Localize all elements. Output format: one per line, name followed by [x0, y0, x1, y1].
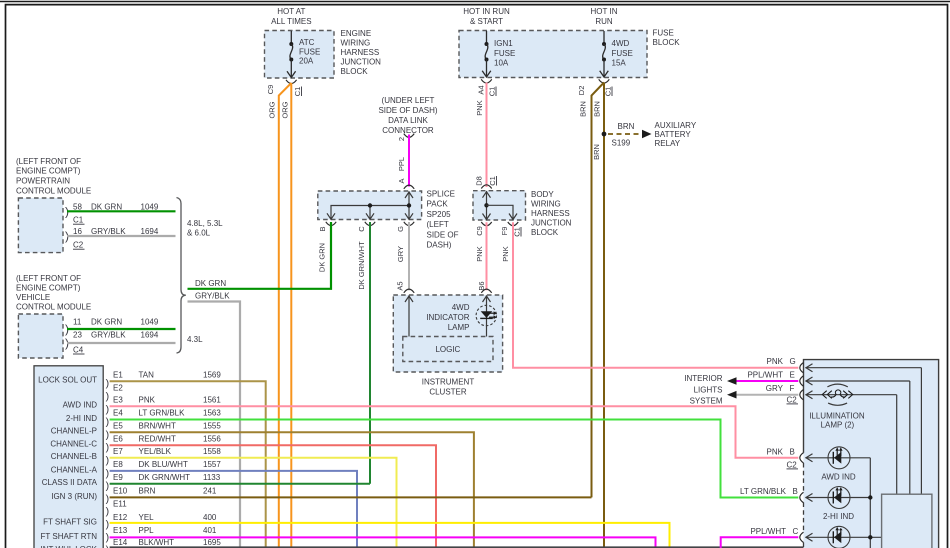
data link connector label — [378, 96, 437, 135]
pin label C1 (underlined) — [603, 87, 612, 97]
pin E7 YEL/BLK 1558 text — [113, 447, 221, 456]
svg-text:1569: 1569 — [203, 371, 221, 380]
svg-text:VEHICLE: VEHICLE — [16, 293, 50, 302]
svg-text:4WD: 4WD — [612, 39, 630, 48]
svg-text:CONTROL MODULE: CONTROL MODULE — [16, 186, 91, 195]
wire PNK 1561 from E3 to AWD IND connector B — [110, 406, 799, 458]
svg-text:16: 16 — [73, 227, 82, 236]
svg-text:ILLUMINATION: ILLUMINATION — [809, 412, 865, 421]
svg-text:LAMP (2): LAMP (2) — [821, 421, 855, 430]
connector arc at splice terminal B — [326, 222, 336, 226]
svg-text:DK GRN: DK GRN — [317, 243, 326, 272]
cluster internal wire B6 through lamp to logic — [483, 296, 491, 337]
wire YEL/BLK 1558 from E7, turns down at x=396.5 — [110, 458, 397, 548]
wire ORG (left branch from ATC fuse) — [279, 83, 292, 548]
svg-text:1557: 1557 — [203, 460, 221, 469]
wire GRY/BLK 1694 from VCM pin 23 — [67, 342, 176, 344]
svg-text:YEL: YEL — [139, 513, 155, 522]
wire LT GRN/BLK 1563 from E4 to 2-HI IND connector B — [110, 420, 799, 498]
svg-text:DATA LINK: DATA LINK — [388, 116, 428, 125]
svg-text:FT SHAFT SIG: FT SHAFT SIG — [43, 517, 97, 526]
svg-text:E12: E12 — [113, 513, 128, 522]
svg-text:CHANNEL-P: CHANNEL-P — [51, 427, 97, 436]
svg-text:PPL/WHT: PPL/WHT — [747, 370, 783, 379]
svg-text:BRN/WHT: BRN/WHT — [139, 422, 176, 431]
wire PPL 401 from E13, turns down at x=655.5 — [110, 537, 656, 548]
svg-text:C1: C1 — [73, 216, 84, 225]
svg-text:2: 2 — [397, 137, 406, 141]
svg-text:401: 401 — [203, 526, 217, 535]
pin label C1 (underlined) — [73, 216, 85, 225]
illumination / indicator module box (right) — [804, 360, 939, 548]
fuse block (IGN1 + 4WD fuses) — [459, 31, 647, 78]
svg-text:20A: 20A — [299, 57, 314, 66]
svg-text:1694: 1694 — [141, 330, 159, 339]
svg-text:PNK: PNK — [475, 100, 484, 115]
fuse ATC FUSE 20A — [287, 31, 320, 78]
wire DK GRN/WHT 1133 from E9 joining splice C drop — [110, 483, 370, 485]
svg-text:1561: 1561 — [203, 396, 221, 405]
svg-text:C1: C1 — [293, 87, 302, 97]
vehicle control module connector box — [18, 314, 63, 358]
svg-text:RED/WHT: RED/WHT — [139, 434, 176, 443]
svg-text:1133: 1133 — [203, 473, 221, 482]
svg-text:BRN: BRN — [592, 144, 601, 160]
wire PPL/WHT C from below crop to connector C — [721, 537, 799, 548]
svg-text:RELAY: RELAY — [655, 139, 681, 148]
svg-text:PPL/WHT: PPL/WHT — [750, 527, 786, 536]
svg-text:(UNDER LEFT: (UNDER LEFT — [382, 96, 435, 105]
svg-text:E7: E7 — [113, 447, 123, 456]
svg-text:4.8L, 5.3L: 4.8L, 5.3L — [187, 219, 223, 228]
svg-text:A5: A5 — [395, 281, 404, 290]
svg-text:GRY: GRY — [766, 384, 784, 393]
pin 16 GRY/BLK 1694 text — [73, 227, 159, 236]
svg-text:DK GRN: DK GRN — [91, 203, 122, 212]
svg-text:E: E — [790, 370, 795, 379]
svg-text:10A: 10A — [494, 58, 509, 67]
svg-text:): ) — [106, 544, 110, 548]
pin E12 YEL 400 text — [113, 513, 217, 522]
svg-text:C: C — [793, 527, 799, 536]
body wiring harness junction block box — [473, 191, 526, 220]
svg-text:E1: E1 — [113, 371, 123, 380]
svg-text:TAN: TAN — [139, 371, 155, 380]
svg-text:ORG: ORG — [280, 101, 289, 118]
label SPLICE PACK SP205 (LEFT SIDE OF DASH) — [427, 190, 459, 250]
vehicle control module label — [16, 274, 91, 312]
svg-text:ATC: ATC — [299, 38, 315, 47]
label FUSE BLOCK — [653, 29, 681, 48]
connector arc C (third lamp) — [800, 532, 804, 542]
svg-text:E14: E14 — [113, 538, 128, 547]
connector arc under 4WD fuse — [599, 79, 610, 83]
svg-text:YEL/BLK: YEL/BLK — [139, 447, 172, 456]
svg-text:CONNECTOR: CONNECTOR — [382, 126, 434, 135]
svg-text:E3: E3 — [113, 396, 123, 405]
pin E6 RED/WHT 1556 text — [113, 434, 221, 443]
svg-text:B: B — [318, 226, 327, 231]
svg-text:ALL TIMES: ALL TIMES — [271, 17, 311, 26]
svg-text:C9: C9 — [266, 85, 275, 95]
transfer case control module connector box (left table) — [34, 366, 103, 548]
wire PPL from DLC to splice pack — [408, 135, 410, 187]
svg-text:D2: D2 — [577, 86, 586, 96]
svg-text:(LEFT FRONT OF: (LEFT FRONT OF — [16, 274, 81, 283]
wire BRN 241 from E10 joining 4WD fuse branch — [110, 496, 592, 498]
svg-text:BRN: BRN — [592, 101, 601, 117]
wire PNK from body F9 down and right to illumination G — [513, 222, 798, 367]
svg-text:& 6.0L: & 6.0L — [187, 229, 211, 238]
svg-text:RUN: RUN — [595, 17, 613, 26]
wire BRN (left branch of 4WD fuse, runs down to E10 IGN 3 row) — [592, 83, 605, 498]
fuse IGN1 FUSE 10A — [482, 31, 515, 77]
svg-text:SIDE OF: SIDE OF — [427, 230, 459, 239]
wire DK GRN 1049 from PCM pin 58 — [67, 210, 176, 212]
svg-text:): ) — [106, 506, 110, 518]
svg-text:): ) — [106, 519, 110, 531]
label INSTRUMENT CLUSTER — [422, 377, 475, 396]
svg-text:GRY/BLK: GRY/BLK — [195, 291, 230, 300]
svg-text:DK GRN/WHT: DK GRN/WHT — [357, 241, 366, 290]
svg-text:S199: S199 — [612, 139, 631, 148]
pin E3 PNK 1561 text — [113, 396, 221, 405]
svg-text:BLK/WHT: BLK/WHT — [139, 538, 175, 547]
wire GRY/BLK 1694 from PCM pin 16 — [67, 235, 176, 237]
svg-text:C2: C2 — [787, 395, 798, 404]
svg-text:LAMP: LAMP — [448, 323, 470, 332]
svg-text:LIGHTS: LIGHTS — [694, 385, 723, 394]
svg-text:CLASS II DATA: CLASS II DATA — [42, 478, 98, 487]
pin E4 LT GRN/BLK 1563 text — [113, 409, 221, 418]
pin E5 BRN/WHT 1555 text — [113, 422, 221, 431]
brace grouping PCM and VCM wires — [177, 198, 186, 354]
pin E10 BRN 241 text — [113, 487, 217, 496]
svg-text:): ) — [106, 455, 110, 467]
svg-text:): ) — [106, 442, 110, 454]
svg-text:PPL: PPL — [139, 526, 155, 535]
pin label C1 (underlined) — [487, 87, 496, 97]
wire BLK/WHT 1695 from E14 — [110, 546, 882, 548]
svg-text:B: B — [793, 487, 798, 496]
svg-text:C2: C2 — [73, 241, 84, 250]
svg-text:4WD: 4WD — [452, 303, 470, 312]
svg-text:G: G — [790, 357, 796, 366]
svg-text:): ) — [106, 531, 110, 543]
svg-text:INSTRUMENT: INSTRUMENT — [422, 377, 475, 386]
illumination lamp symbol — [822, 384, 852, 405]
svg-text:): ) — [106, 480, 110, 492]
dashed BRN lead to auxiliary battery relay — [608, 122, 652, 148]
connector arc G — [800, 363, 804, 373]
svg-text:INDICATOR: INDICATOR — [426, 313, 469, 322]
svg-text:ORG: ORG — [267, 101, 276, 118]
pin E9 DK GRN/WHT 1133 text — [113, 473, 221, 482]
svg-text:23: 23 — [73, 330, 82, 339]
svg-text:1563: 1563 — [203, 409, 221, 418]
svg-text:PACK: PACK — [427, 200, 449, 209]
svg-text:LOGIC: LOGIC — [435, 345, 460, 354]
svg-text:4.3L: 4.3L — [187, 335, 203, 344]
body junction block internal wiring — [483, 191, 518, 220]
svg-text:): ) — [106, 493, 110, 505]
internal wire from E to module — [806, 377, 910, 494]
svg-text:E8: E8 — [113, 460, 123, 469]
splice S199 junction dot — [602, 132, 607, 137]
svg-text:ENGINE: ENGINE — [341, 29, 372, 38]
label BODY WIRING HARNESS JUNCTION BLOCK — [531, 190, 572, 237]
interior lights system label — [684, 374, 723, 406]
wire YEL 400 from E12, turns down at x=669.5 — [110, 523, 670, 548]
svg-text:C1: C1 — [488, 176, 497, 186]
svg-text:2-HI IND: 2-HI IND — [823, 512, 854, 521]
svg-text:PNK: PNK — [767, 357, 784, 366]
pin E8 DK BLU/WHT 1557 text — [113, 460, 221, 469]
connector arc at splice pack terminal A — [404, 185, 414, 189]
svg-text:AWD IND: AWD IND — [821, 472, 856, 481]
svg-text:C4: C4 — [73, 345, 84, 354]
svg-text:WIRING: WIRING — [531, 199, 561, 208]
svg-text:CLUSTER: CLUSTER — [429, 387, 467, 396]
internal wire from B through 2-HI IND lamp — [806, 494, 873, 502]
svg-text:CHANNEL-A: CHANNEL-A — [51, 465, 98, 474]
svg-text:BRN: BRN — [139, 487, 156, 496]
cluster internal wire A5 to logic — [405, 296, 413, 337]
wire DK GRN from splice B down to brace output — [330, 222, 332, 289]
svg-text:1695: 1695 — [203, 538, 221, 547]
svg-text:A4: A4 — [476, 85, 485, 94]
svg-text:BLOCK: BLOCK — [531, 228, 559, 237]
wire RED/WHT 1556 from E6, turns down at x=436 — [110, 445, 436, 548]
instrument cluster box — [393, 295, 502, 372]
internal wire from C through third lamp into sub-module — [806, 533, 882, 541]
svg-text:2-HI IND: 2-HI IND — [66, 414, 97, 423]
connector arc at splice terminal G — [404, 222, 414, 226]
svg-text:): ) — [106, 378, 110, 390]
pin 58 DK GRN 1049 text — [73, 203, 159, 212]
svg-text:): ) — [106, 467, 110, 479]
2-HI IND lamp LED — [828, 487, 850, 509]
svg-text:E6: E6 — [113, 434, 123, 443]
pin label C2 (underlined) — [73, 241, 85, 250]
svg-text:A: A — [397, 178, 406, 183]
svg-text:DK GRN: DK GRN — [195, 279, 226, 288]
wire BRN/WHT 1555 from E5, turns down at x=473.9 — [110, 432, 474, 548]
svg-text:): ) — [106, 429, 110, 441]
powertrain control module connector box — [18, 198, 63, 253]
svg-text:1556: 1556 — [203, 434, 221, 443]
svg-text:B: B — [790, 447, 795, 456]
svg-text:BODY: BODY — [531, 190, 554, 199]
svg-text:E11: E11 — [113, 499, 127, 508]
splice pack internal bus — [327, 192, 413, 220]
svg-text:DASH): DASH) — [427, 241, 452, 250]
svg-text:LT GRN/BLK: LT GRN/BLK — [139, 409, 186, 418]
fuse 4WD FUSE 15A — [600, 31, 633, 77]
svg-text:(LEFT: (LEFT — [427, 220, 449, 229]
svg-text:DK BLU/WHT: DK BLU/WHT — [139, 460, 188, 469]
svg-text:F9: F9 — [500, 227, 509, 236]
wire PPL/WHT E stub to interior lights — [727, 377, 798, 385]
svg-text:1049: 1049 — [141, 203, 159, 212]
svg-text:(LEFT FRONT OF: (LEFT FRONT OF — [16, 157, 81, 166]
pin label C1 (underlined) — [488, 176, 497, 186]
splice pack SP205 box — [318, 191, 422, 220]
svg-text:SP205: SP205 — [427, 210, 452, 219]
wire DK GRN/WHT from splice C down to E9 row — [369, 222, 371, 484]
powertrain control module label — [16, 157, 91, 196]
svg-text:GRY/BLK: GRY/BLK — [91, 227, 126, 236]
svg-text:BRN: BRN — [618, 122, 635, 131]
svg-text:HARNESS: HARNESS — [531, 209, 570, 218]
wire DK BLU/WHT 1557 from E8, turns down at x=357 — [110, 471, 357, 548]
svg-text:AUXILIARY: AUXILIARY — [655, 121, 697, 130]
svg-text:AWD IND: AWD IND — [63, 401, 98, 410]
svg-text:IGN 3 (RUN): IGN 3 (RUN) — [51, 492, 97, 501]
svg-text:PNK: PNK — [139, 396, 156, 405]
svg-text:LOCK SOL OUT: LOCK SOL OUT — [38, 376, 97, 385]
svg-text:ENGINE COMPT): ENGINE COMPT) — [16, 283, 81, 292]
svg-text:E13: E13 — [113, 526, 128, 535]
svg-text:1049: 1049 — [141, 317, 159, 326]
svg-text:E2: E2 — [113, 383, 123, 392]
svg-text:F: F — [790, 384, 795, 393]
svg-text:CHANNEL-B: CHANNEL-B — [51, 452, 97, 461]
svg-text:PNK: PNK — [767, 447, 784, 456]
svg-text:15A: 15A — [612, 58, 627, 67]
svg-text:D8: D8 — [474, 176, 483, 186]
logic box — [403, 337, 493, 362]
label HOT IN RUN & START — [463, 7, 510, 26]
svg-text:): ) — [106, 403, 110, 415]
svg-text:BLOCK: BLOCK — [653, 38, 681, 47]
label AUXILIARY BATTERY RELAY — [655, 121, 697, 148]
svg-text:SYSTEM: SYSTEM — [690, 396, 723, 405]
svg-text:58: 58 — [73, 203, 82, 212]
connector C1 arc under ATC fuse — [286, 80, 297, 84]
svg-text:B6: B6 — [477, 281, 486, 290]
connector arc F — [800, 390, 804, 400]
label HOT IN RUN — [591, 7, 618, 26]
connector arc B (2-HI IND) — [800, 492, 804, 502]
svg-text:E5: E5 — [113, 422, 123, 431]
svg-text:FT SHAFT RTN: FT SHAFT RTN — [41, 532, 98, 541]
svg-text:HARNESS: HARNESS — [341, 48, 380, 57]
wire GRY F stub to interior lights — [727, 391, 798, 399]
svg-text:ENGINE COMPT): ENGINE COMPT) — [16, 166, 81, 175]
wire label LT GRN/BLK B — [740, 487, 798, 496]
svg-text:INTERIOR: INTERIOR — [684, 374, 722, 383]
label ILLUMINATION LAMP (2) — [809, 412, 865, 430]
fuse block: engine wiring harness junction block (ATC fuse) — [265, 31, 335, 79]
wire label PNK G — [767, 357, 796, 366]
svg-text:& START: & START — [470, 17, 503, 26]
connector arc at cluster A5 — [404, 289, 414, 293]
svg-text:GRY/BLK: GRY/BLK — [91, 330, 126, 339]
pin label C1 (underlined) — [512, 227, 521, 237]
third indicator lamp LED — [828, 526, 850, 548]
label 4WD INDICATOR LAMP — [426, 303, 469, 332]
connector arc at cluster B6 — [481, 289, 491, 293]
wire TAN 1569 from E1, turns down at x=265.7 — [110, 381, 266, 548]
pin E14 BLK/WHT 1695 text — [113, 538, 221, 547]
svg-text:HOT IN RUN: HOT IN RUN — [463, 7, 510, 16]
wire PNK from body C9 to instrument cluster B6 — [486, 222, 488, 290]
wire GRY/BLK from brace down at x=240 — [188, 302, 241, 548]
label 4.8L, 5.3L & 6.0L — [187, 219, 223, 238]
svg-text:400: 400 — [203, 513, 217, 522]
connector arc at body block F9 — [508, 222, 518, 226]
4WD indicator lamp LED — [476, 305, 497, 325]
svg-text:): ) — [106, 416, 110, 428]
wire ORG (right branch from ATC fuse) — [290, 83, 292, 548]
AWD IND lamp LED — [828, 447, 850, 469]
svg-text:1555: 1555 — [203, 422, 221, 431]
label ENGINE WIRING HARNESS JUNCTION BLOCK — [341, 29, 382, 76]
svg-text:JUNCTION: JUNCTION — [531, 218, 572, 227]
wire label PPL/WHT C — [750, 527, 798, 536]
connector arc at body block C9 — [481, 222, 491, 226]
svg-text:DK GRN/WHT: DK GRN/WHT — [139, 473, 191, 482]
svg-text:PPL: PPL — [397, 157, 406, 171]
sub-module box inside right module — [882, 494, 932, 548]
connector arc at splice terminal C — [365, 222, 375, 226]
svg-text:241: 241 — [203, 487, 217, 496]
svg-text:G: G — [396, 226, 405, 232]
svg-text:SIDE OF DASH): SIDE OF DASH) — [378, 106, 437, 115]
connector arc E — [800, 376, 804, 386]
svg-text:FUSE: FUSE — [612, 49, 633, 58]
svg-text:FUSE: FUSE — [494, 49, 515, 58]
svg-text:1694: 1694 — [141, 227, 159, 236]
svg-text:C: C — [357, 226, 366, 232]
wire PNK from IGN1 fuse to body junction block — [486, 83, 488, 188]
wire label GRY F — [766, 384, 795, 393]
svg-text:POWERTRAIN: POWERTRAIN — [16, 176, 70, 185]
svg-text:HOT AT: HOT AT — [277, 7, 305, 16]
svg-text:E4: E4 — [113, 409, 123, 418]
wire label PPL/WHT E — [747, 370, 794, 379]
internal wire from B through AWD IND lamp — [806, 454, 871, 548]
svg-text:C1: C1 — [487, 87, 496, 97]
pin 23 GRY/BLK 1694 text — [73, 330, 159, 339]
pin E1 TAN 1569 text — [113, 371, 221, 380]
svg-text:CHANNEL-C: CHANNEL-C — [50, 440, 97, 449]
wire GRY from splice G down to instrument cluster A5 — [408, 222, 410, 290]
svg-text:C9: C9 — [475, 226, 484, 236]
internal wire from F through illumination lamp — [806, 391, 897, 495]
svg-text:GRY: GRY — [396, 246, 405, 262]
svg-text:DK GRN: DK GRN — [91, 317, 122, 326]
svg-text:E10: E10 — [113, 487, 128, 496]
pin E13 PPL 401 text — [113, 526, 217, 535]
svg-text:FUSE: FUSE — [653, 29, 674, 38]
wire DK GRN 1049 from VCM pin 11 — [67, 328, 176, 330]
svg-text:SPLICE: SPLICE — [427, 190, 455, 199]
connector arc at body block D8 — [481, 185, 491, 189]
svg-text:): ) — [106, 391, 110, 403]
svg-text:1558: 1558 — [203, 447, 221, 456]
svg-text:BATTERY: BATTERY — [655, 130, 692, 139]
connector arc under IGN1 fuse — [481, 79, 492, 83]
connector arc B (AWD IND) — [800, 453, 804, 463]
svg-text:JUNCTION: JUNCTION — [341, 58, 382, 67]
internal wire from G to module — [806, 364, 922, 495]
connector arc at data link connector — [404, 134, 414, 138]
svg-text:11: 11 — [73, 317, 82, 326]
svg-text:PNK: PNK — [501, 246, 510, 261]
svg-text:C2: C2 — [787, 460, 798, 469]
